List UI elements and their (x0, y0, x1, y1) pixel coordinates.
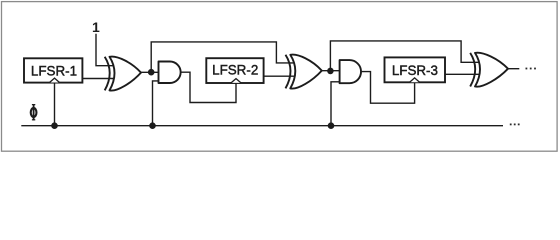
and gate U4 (340, 60, 361, 83)
wire LFSR-3 output to XOR U5 bottom input (445, 73, 482, 75)
junction dot phi rail to LFSR-1 clock (51, 122, 58, 129)
wire XOR U5 output continuation (508, 68, 519, 70)
node A junction dot at XOR U1 output (148, 69, 155, 76)
node B junction dot at XOR U3 output (327, 68, 334, 75)
register LFSR-2 (206, 58, 263, 83)
wire AND U4 bottom input down to phi rail (331, 82, 343, 126)
wire feed-forward rail from node A over LFSR-2 to XOR U3 top input (151, 42, 296, 72)
clock pin triangle of LFSR-3 (410, 78, 420, 82)
wire LFSR-1 output to XOR U1 bottom input (82, 78, 117, 80)
ellipsis continuation of phi rail (510, 124, 520, 126)
wire LFSR-1 clock to phi rail (54, 83, 56, 126)
clock pin triangle of LFSR-1 (50, 78, 60, 82)
and gate U2 (159, 62, 181, 84)
ellipsis continuation of signal chain (526, 68, 536, 70)
junction dot phi rail to AND U2 (149, 122, 156, 129)
wire AND U2 output to LFSR-2 clock pin (181, 72, 236, 102)
junction dot phi rail to AND U4 (328, 122, 335, 129)
clock pin triangle of LFSR-2 (231, 79, 241, 83)
wire feed-forward rail from node B over LFSR-3 to XOR U5 top input (330, 41, 480, 71)
xor gate U3 (286, 55, 322, 89)
wire node B to AND U4 input (322, 70, 344, 72)
register LFSR-1 (24, 58, 82, 82)
svg-text:1: 1 (92, 19, 100, 35)
svg-text:LFSR-3: LFSR-3 (392, 63, 438, 78)
register LFSR-3 (385, 57, 446, 82)
phi clock rail wire (21, 125, 503, 127)
wire AND U2 bottom input down to phi rail (153, 81, 162, 126)
svg-text:LFSR-2: LFSR-2 (212, 63, 258, 78)
xor gate U1 (105, 57, 141, 91)
svg-text:LFSR-1: LFSR-1 (31, 64, 77, 79)
wire AND U4 output to LFSR-3 clock pin (361, 72, 415, 104)
wire node A to AND U2 input (141, 71, 163, 73)
wire LFSR-2 output to XOR U3 bottom input (264, 75, 297, 77)
clock phi label (31, 104, 37, 120)
wire from constant 1 to XOR U1 top input (96, 34, 116, 66)
xor gate U5 (470, 53, 508, 87)
